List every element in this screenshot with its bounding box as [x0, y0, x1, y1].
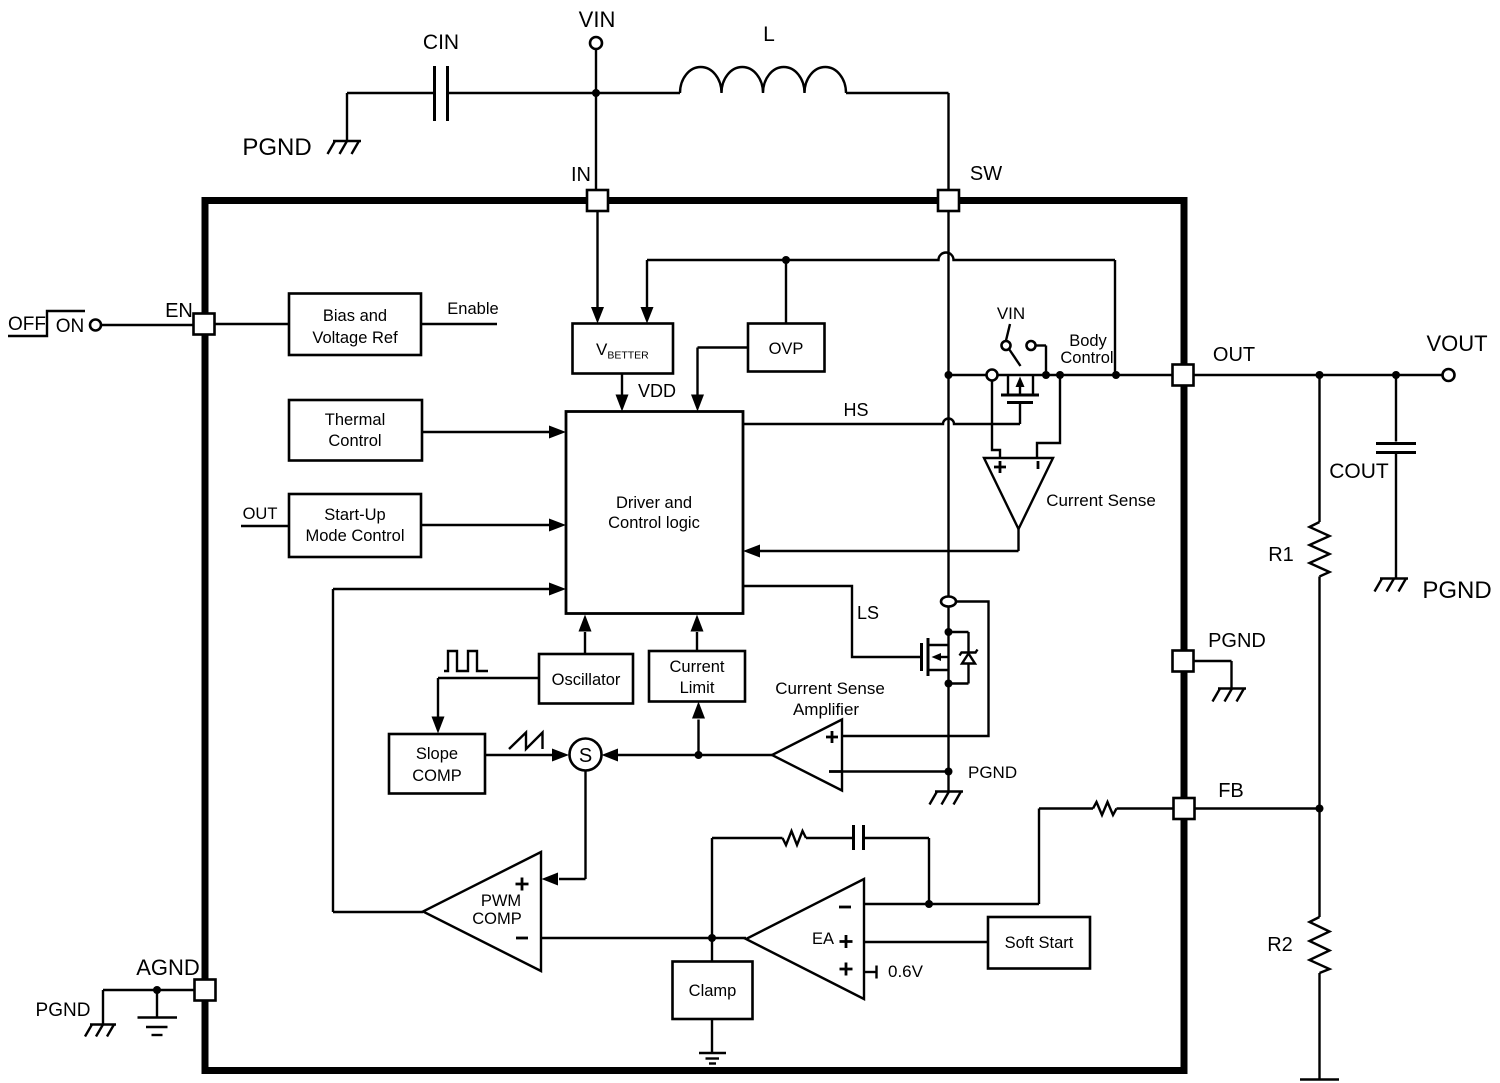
svg-text:PGND: PGND — [36, 1000, 91, 1021]
svg-text:Body: Body — [1069, 332, 1107, 350]
svg-text:PGND: PGND — [1208, 630, 1266, 652]
junction FB/R1/R2 — [1316, 805, 1324, 813]
wire FB pin to divider — [1194, 807, 1320, 809]
ground PGND right pin — [1208, 630, 1266, 702]
svg-text:ON: ON — [56, 316, 85, 337]
comparator Current Sense — [984, 458, 1156, 529]
wire resistor to FB pin — [1117, 807, 1175, 809]
svg-text:CIN: CIN — [423, 31, 459, 54]
svg-text:LS: LS — [857, 603, 879, 623]
op-amp PWM COMP — [423, 852, 541, 971]
svg-text:Current Sense: Current Sense — [1046, 491, 1156, 510]
block VBETTER — [573, 324, 674, 374]
svg-text:0.6V: 0.6V — [888, 962, 924, 981]
svg-text:Slope: Slope — [416, 745, 458, 763]
svg-text:VOUT: VOUT — [1426, 331, 1487, 356]
wire PGND pin to ground — [1194, 661, 1232, 688]
block Soft Start — [988, 917, 1090, 969]
wire EN to Bias block — [215, 323, 290, 325]
wire Slope COMP to summer — [485, 749, 569, 762]
wire CSA minus to PGND node — [842, 770, 949, 772]
svg-text:Voltage Ref: Voltage Ref — [312, 329, 398, 347]
label Body Control — [1060, 332, 1113, 367]
wire EA noninverting to Soft Start — [864, 941, 988, 943]
block Oscillator — [539, 654, 633, 704]
wire switch to EN pin — [101, 324, 194, 326]
svg-text:Start-Up: Start-Up — [324, 506, 385, 524]
ground below Clamp — [699, 1019, 726, 1064]
wire OUT node to VBETTER and OVP — [641, 253, 1116, 375]
wire CSA to summer — [602, 749, 773, 762]
clock pulse symbol — [444, 651, 488, 671]
op-amp Current Sense Amplifier — [772, 679, 885, 791]
block Clamp — [673, 962, 753, 1020]
svg-text:Control: Control — [328, 432, 381, 450]
node sense bubble on OUT rail — [987, 370, 998, 381]
svg-text:SW: SW — [970, 163, 1002, 185]
svg-text:R1: R1 — [1268, 544, 1294, 566]
wire LS gate drive — [743, 586, 920, 657]
junction PGND sense — [945, 768, 953, 776]
svg-text:Limit: Limit — [680, 679, 715, 697]
junction OUT/R1 — [1316, 371, 1324, 379]
wire Oscillator to driver — [579, 615, 592, 655]
block OVP — [748, 324, 825, 372]
svg-text:Control logic: Control logic — [608, 514, 700, 532]
wire L to SW pin — [947, 93, 949, 190]
node VOUT terminal — [1426, 331, 1487, 381]
pin AGND — [136, 955, 215, 1001]
pin SW — [938, 163, 1002, 211]
svg-text:COMP: COMP — [412, 767, 462, 785]
block Driver and Control logic U1 — [566, 412, 743, 614]
svg-text:PGND: PGND — [968, 763, 1017, 782]
transistor Q2 low-side NMOS — [922, 638, 949, 676]
diode body D1 — [949, 632, 978, 684]
wire PWM loop to driver — [333, 583, 566, 913]
svg-text:AGND: AGND — [136, 955, 200, 980]
svg-text:S: S — [579, 745, 592, 767]
wire summer to PWM COMP — [542, 771, 586, 886]
svg-text:OUT: OUT — [243, 505, 278, 523]
wire PWM COMP output — [333, 911, 423, 913]
wire OVP drop — [785, 260, 787, 324]
wire Current Limit to driver — [691, 615, 704, 652]
wire OVP to driver — [691, 348, 748, 412]
block Thermal Control — [289, 400, 422, 461]
ground PGND bottom-left — [36, 990, 116, 1037]
node VIN terminal — [579, 7, 616, 49]
block Slope COMP — [389, 734, 485, 794]
capacitor CIN — [347, 31, 596, 121]
wire current sense minus input — [1037, 375, 1060, 458]
svg-text:EA: EA — [812, 930, 834, 948]
summer S — [570, 739, 602, 771]
resistor R2 — [1267, 809, 1329, 1080]
wire SW line through NMOS — [947, 607, 949, 792]
block Start-Up Mode Control — [289, 494, 421, 557]
resistor FB input — [1093, 802, 1117, 815]
capacitor COUT — [1329, 375, 1416, 578]
svg-text:EN: EN — [165, 300, 193, 322]
svg-text:VIN: VIN — [997, 304, 1025, 323]
ground PGND at COUT — [1375, 577, 1492, 604]
svg-text:Enable: Enable — [447, 300, 498, 318]
wire EA feedback branch — [865, 838, 934, 908]
op-amp EA — [746, 879, 864, 999]
wire Current Sense output to driver — [743, 529, 1019, 558]
reference 0.6V — [864, 962, 924, 981]
IC boundary box — [205, 201, 1184, 1071]
svg-text:PWM: PWM — [481, 892, 521, 910]
wire HS gate drive — [743, 400, 1020, 424]
junction current sense tap — [1056, 371, 1064, 379]
svg-text:IN: IN — [571, 164, 591, 186]
ground PGND at NMOS source — [930, 763, 1018, 805]
svg-text:Oscillator: Oscillator — [552, 671, 621, 689]
wire VIN to IN pin — [595, 49, 597, 190]
wire EA inverting input to FB — [864, 809, 1093, 905]
svg-text:FB: FB — [1218, 780, 1244, 802]
wire IN pin to VBETTER — [591, 211, 604, 324]
junction AGND wire — [153, 986, 161, 994]
capacitor EA feedback — [854, 825, 864, 850]
wire Start-Up to driver — [421, 519, 566, 532]
pin OUT — [1173, 344, 1256, 386]
svg-text:R2: R2 — [1267, 934, 1293, 956]
svg-text:Mode Control: Mode Control — [305, 527, 404, 545]
block Bias and Voltage Ref — [289, 294, 421, 356]
svg-text:OUT: OUT — [1213, 344, 1255, 366]
junction VIN-CIN-L — [592, 89, 600, 97]
svg-text:Bias and: Bias and — [323, 307, 387, 325]
junction OUT/COUT — [1392, 371, 1400, 379]
svg-text:VIN: VIN — [579, 7, 616, 32]
transistor Q1 high-side PMOS — [1001, 375, 1039, 403]
ground AGND earth symbol — [138, 990, 178, 1035]
svg-text:OFF: OFF — [8, 314, 46, 335]
wire EA output to PWM COMP — [541, 937, 746, 939]
inductor L — [596, 23, 949, 93]
junction SW/OUT rail — [945, 371, 953, 379]
resistor EA feedback — [712, 831, 852, 845]
ground PGND top-left — [242, 93, 361, 161]
wire OUT pin to VOUT — [1194, 374, 1443, 376]
svg-text:L: L — [763, 23, 775, 46]
node sense bubble on SW line — [941, 597, 956, 607]
pin EN — [165, 300, 214, 335]
wire current sense plus input — [992, 381, 1000, 459]
svg-text:Current Sense: Current Sense — [775, 679, 885, 698]
svg-text:Clamp: Clamp — [689, 982, 737, 1000]
svg-text:Current: Current — [669, 658, 724, 676]
wire VDD — [616, 374, 677, 412]
pin IN — [571, 164, 608, 211]
svg-text:COMP: COMP — [472, 910, 522, 928]
svg-text:PGND: PGND — [242, 134, 311, 161]
junction switch gate node — [1042, 371, 1050, 379]
junction body control node — [1112, 371, 1120, 379]
pin PGND — [1173, 651, 1194, 672]
svg-text:OVP: OVP — [769, 340, 804, 358]
svg-text:Soft Start: Soft Start — [1005, 934, 1074, 952]
wire SW pin down the switch node — [947, 211, 949, 597]
wire feedback to output junction — [708, 838, 716, 962]
wire summer junction to Current Limit — [692, 702, 705, 760]
svg-text:Amplifier: Amplifier — [793, 700, 859, 719]
junction NMOS drain — [945, 628, 953, 636]
switch OFF/ON enable input — [8, 311, 101, 337]
svg-text:Thermal: Thermal — [325, 411, 386, 429]
wire OUT node main rail — [949, 374, 1173, 376]
wire AGND pin to grounds — [103, 989, 194, 991]
wire Oscillator to Slope COMP — [432, 678, 540, 734]
svg-text:VDD: VDD — [638, 381, 676, 401]
switch body control VIN select — [997, 304, 1046, 375]
junction NMOS source — [945, 680, 953, 688]
svg-text:HS: HS — [843, 400, 868, 420]
svg-text:COUT: COUT — [1329, 460, 1389, 483]
sawtooth symbol — [509, 733, 543, 750]
wire Enable output — [421, 300, 499, 324]
pin FB — [1174, 780, 1244, 819]
svg-text:Control: Control — [1060, 349, 1113, 367]
ground at R2 bottom — [1300, 1078, 1339, 1080]
block Current Limit — [649, 651, 745, 702]
wire Thermal Control to driver — [422, 426, 566, 439]
svg-text:Driver and: Driver and — [616, 494, 692, 512]
wire sense bubble to CSA plus — [842, 602, 989, 737]
resistor R1 — [1268, 375, 1329, 809]
junction OVP branch — [782, 256, 790, 264]
svg-text:PGND: PGND — [1422, 577, 1491, 604]
wire OUT input stub — [241, 505, 289, 526]
